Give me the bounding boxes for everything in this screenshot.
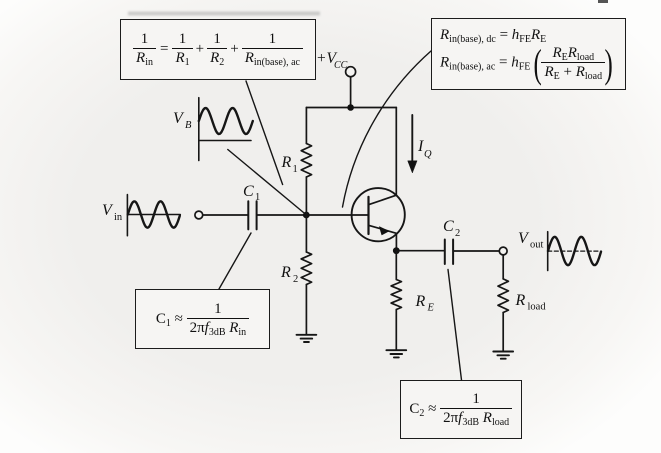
wire C1 to base	[257, 214, 369, 216]
wire emitter node to C2	[396, 250, 444, 252]
wire emitter node to RE	[395, 251, 397, 280]
resistor RE	[391, 280, 401, 310]
Vin waveform sine	[128, 201, 180, 227]
Vin waveform axes	[127, 195, 180, 236]
ground R2	[297, 335, 317, 342]
svg-text:load: load	[528, 302, 547, 313]
wire emitter	[395, 234, 397, 251]
leader line VB to base node	[228, 150, 304, 213]
VB waveform axes	[199, 98, 251, 161]
VCC terminal	[346, 67, 356, 77]
svg-text:R: R	[415, 293, 426, 310]
node emitter junction	[393, 247, 400, 254]
wire VCC rail	[306, 107, 396, 109]
svg-text:B: B	[185, 120, 192, 131]
wire R1 to node	[305, 177, 307, 215]
input terminal	[195, 211, 203, 219]
node base junction	[303, 212, 310, 219]
wire terminal to Rload	[502, 255, 504, 279]
leader line box1 to base node	[246, 81, 283, 185]
leader curve box2 to transistor base	[343, 51, 432, 207]
formula box: Rin(base) dc and ac	[431, 18, 626, 90]
svg-text:1: 1	[255, 192, 260, 203]
svg-text:V: V	[173, 110, 185, 127]
svg-text:CC: CC	[334, 60, 348, 71]
leader line C1 to box	[219, 233, 251, 289]
Vout waveform sine	[548, 237, 601, 265]
wire VCC stub	[350, 77, 352, 108]
capacitor C1	[248, 201, 256, 229]
svg-text:C: C	[243, 183, 254, 200]
wire rail to R1	[305, 108, 307, 144]
svg-text:R: R	[515, 292, 526, 309]
formula box: 1/Rin = 1/R1 + 1/R2 + 1/Rin(base),ac	[120, 19, 316, 80]
svg-text:in: in	[114, 212, 123, 223]
wire input to C1	[203, 214, 248, 216]
resistor Rload	[498, 279, 508, 313]
svg-text:R: R	[281, 154, 292, 171]
svg-text:R: R	[280, 264, 291, 281]
wire C2 to output terminal	[453, 250, 499, 252]
wire R2 to ground	[305, 285, 307, 335]
resistor R2	[301, 252, 311, 284]
ground Rload	[493, 352, 513, 359]
svg-text:I: I	[417, 138, 424, 155]
wire collector	[395, 108, 397, 196]
svg-text:C: C	[443, 218, 454, 235]
svg-text:Q: Q	[424, 149, 432, 160]
svg-text:E: E	[427, 303, 435, 314]
svg-text:V: V	[518, 230, 530, 247]
Vout waveform axes	[547, 232, 549, 271]
svg-text:V: V	[102, 202, 114, 219]
leader line C2 to box	[448, 270, 462, 381]
transistor Q1	[352, 188, 405, 241]
wire RE to ground	[395, 310, 397, 351]
capacitor C2	[445, 240, 453, 265]
svg-text:2: 2	[293, 274, 298, 285]
svg-text:out: out	[530, 240, 544, 251]
scan mark top right	[598, 0, 608, 3]
node VCC rail junction	[347, 104, 354, 111]
output terminal	[499, 247, 507, 255]
formula box: C2 = 1/(2 pi f3dB Rload)	[400, 380, 522, 439]
svg-text:1: 1	[293, 164, 298, 175]
svg-text:2: 2	[455, 228, 460, 239]
wire node to R2	[305, 215, 307, 252]
resistor R1	[301, 144, 311, 178]
ground RE	[386, 350, 406, 357]
scan smudge top	[128, 12, 320, 16]
VB waveform sine	[199, 108, 253, 134]
wire Rload to ground	[502, 313, 504, 352]
arrow IQ	[411, 115, 413, 161]
formula box: C1 = 1/(2 pi f3dB Rin)	[135, 289, 270, 349]
